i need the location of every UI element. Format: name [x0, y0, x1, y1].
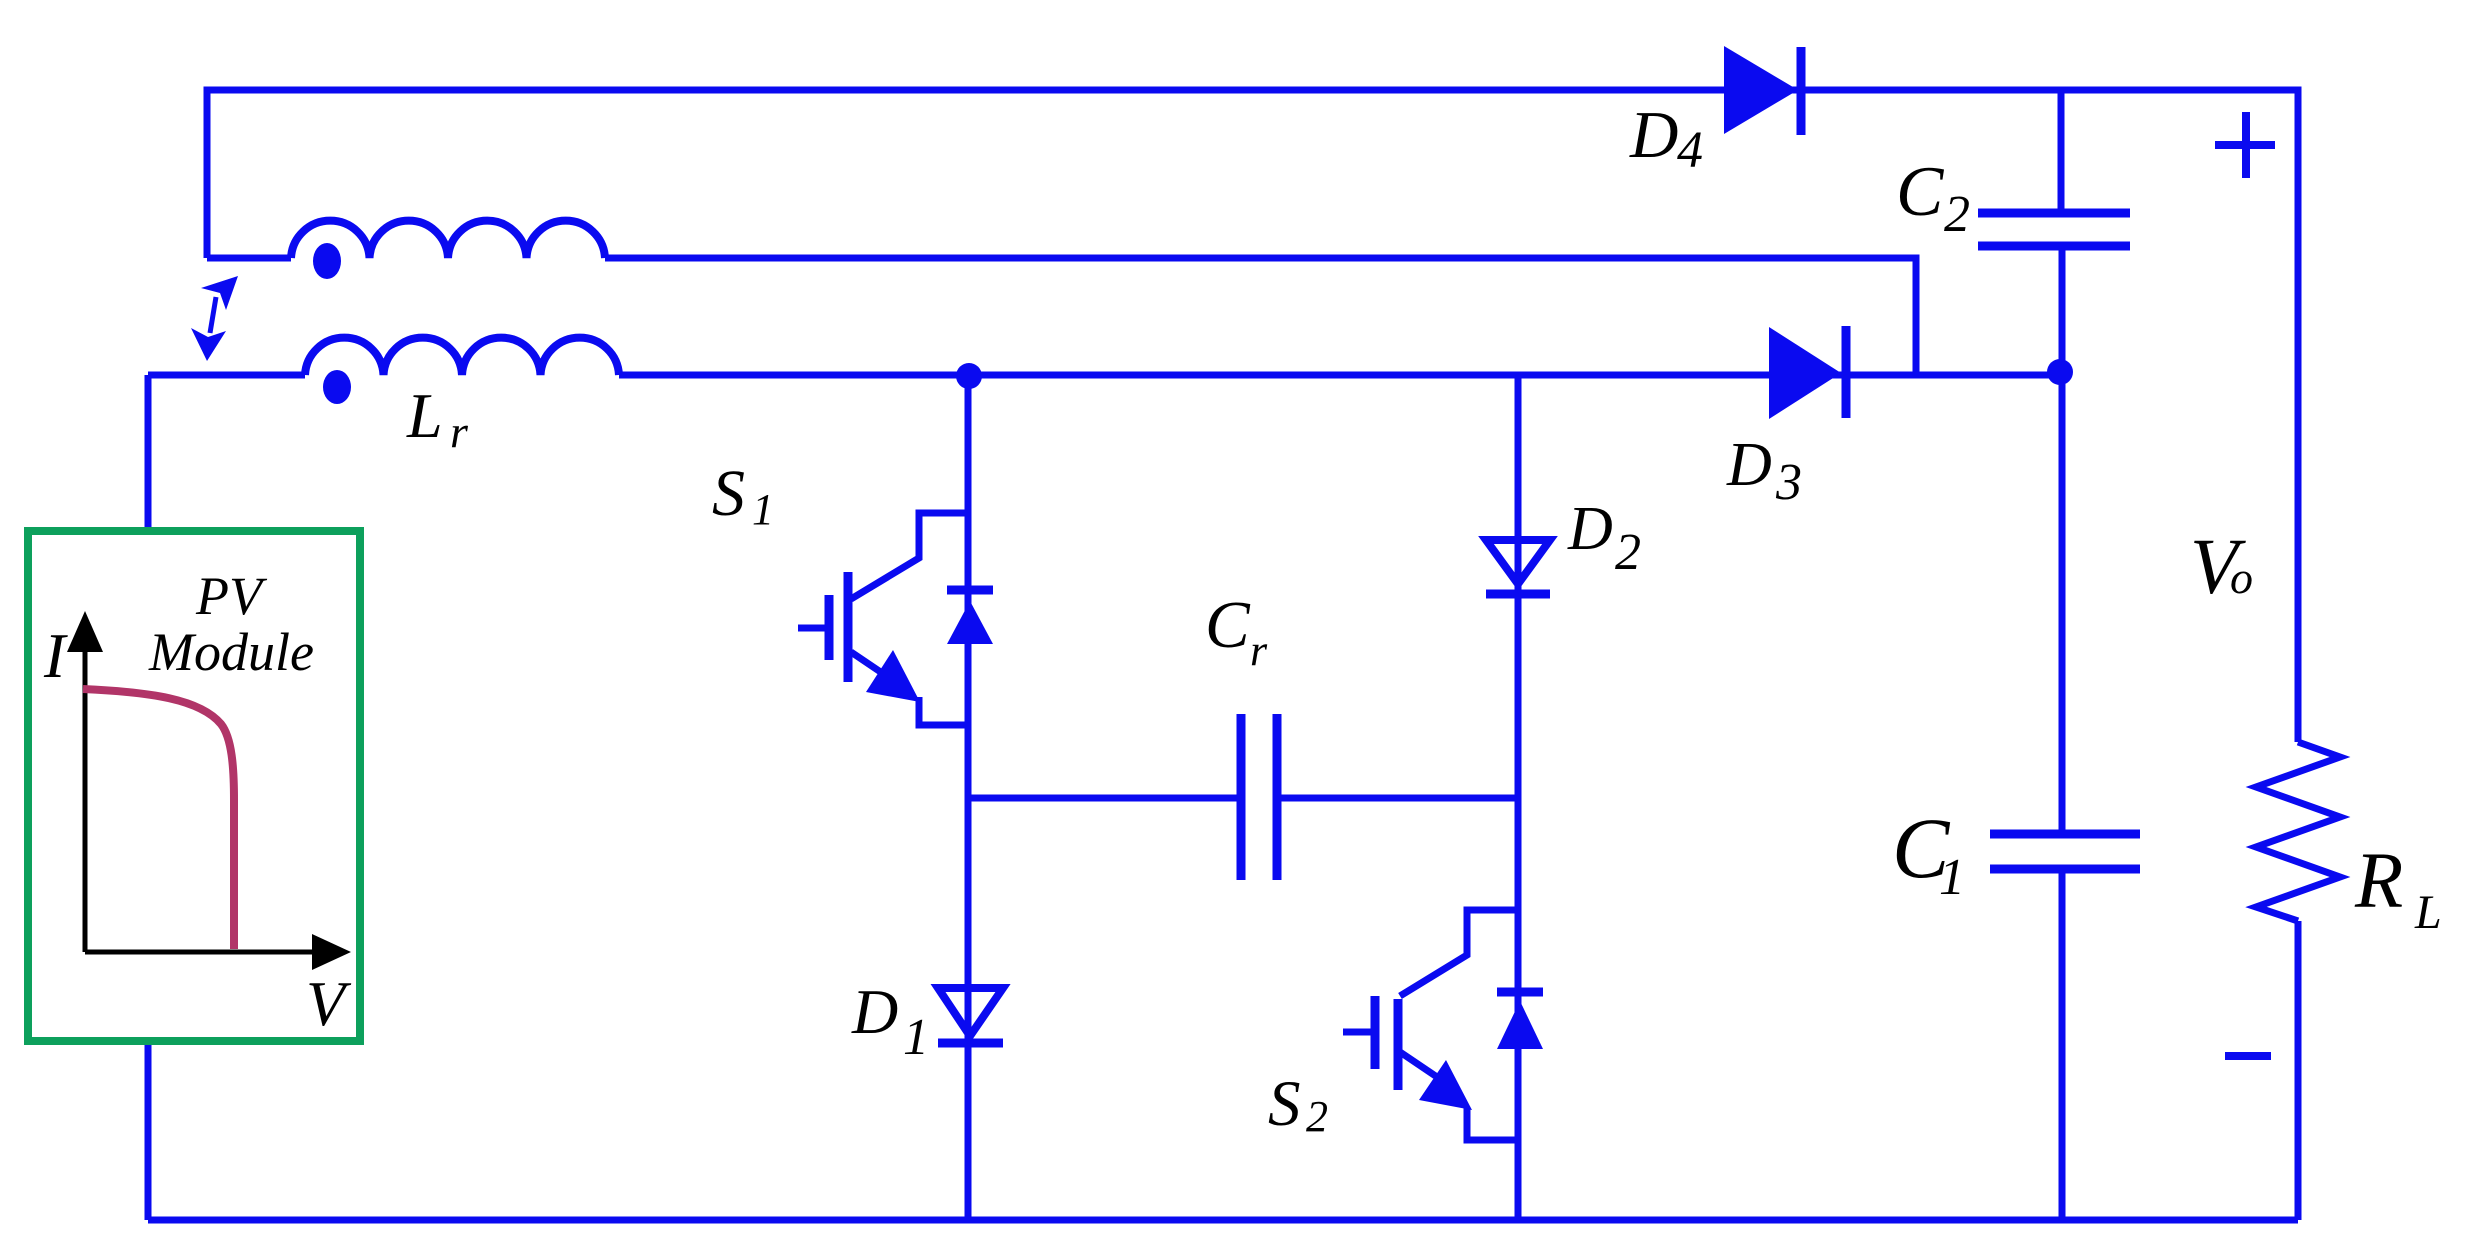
svg-text:r: r — [450, 406, 469, 457]
svg-text:D: D — [1629, 98, 1678, 172]
svg-text:PV: PV — [195, 566, 268, 626]
svg-text:L: L — [406, 380, 443, 451]
svg-text:C: C — [1896, 153, 1945, 231]
svg-text:1: 1 — [1939, 849, 1965, 906]
svg-text:3: 3 — [1775, 454, 1802, 511]
svg-text:I: I — [43, 620, 68, 691]
svg-text:4: 4 — [1677, 122, 1703, 179]
svg-text:2: 2 — [1615, 524, 1641, 581]
svg-text:L: L — [2414, 886, 2442, 939]
svg-text:1: 1 — [752, 485, 774, 534]
svg-text:D: D — [851, 976, 898, 1047]
svg-text:2: 2 — [1306, 1092, 1328, 1141]
svg-text:1: 1 — [903, 1009, 929, 1066]
svg-text:S: S — [712, 457, 745, 530]
svg-text:o: o — [2230, 552, 2253, 603]
svg-text:Module: Module — [148, 622, 314, 682]
svg-text:r: r — [1250, 626, 1268, 675]
svg-text:D: D — [1567, 495, 1613, 563]
svg-text:C: C — [1205, 588, 1251, 662]
svg-text:S: S — [1268, 1068, 1301, 1140]
svg-text:R: R — [2354, 838, 2403, 925]
svg-text:V: V — [306, 968, 352, 1039]
svg-text:2: 2 — [1944, 186, 1970, 243]
svg-text:D: D — [1726, 431, 1772, 499]
